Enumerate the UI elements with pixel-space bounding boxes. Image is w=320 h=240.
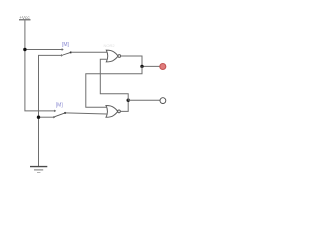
switch S1 (top, key M) lever	[63, 52, 71, 55]
wire NOR2 output to junction	[120, 100, 128, 111]
wire NOR1 output to junction and LED probe	[121, 56, 142, 66]
switch S2 pole dot	[64, 112, 66, 114]
junction node ground/bottom-switch	[37, 116, 40, 119]
svg-text:+Vcc: +Vcc	[19, 15, 30, 20]
logic probe P1 (lit, red)	[160, 64, 166, 70]
NOR gate U2 (bottom) body	[106, 106, 120, 118]
junction node Q-bar output	[127, 99, 130, 102]
wire Vcc to top switch upper throw	[25, 49, 63, 51]
ground symbol	[30, 167, 47, 173]
top switch S1 throw arrowheads	[62, 49, 63, 51]
NOR gate U2 output bubble	[118, 110, 121, 113]
feedback wire Q to NOR2 input1	[86, 66, 142, 107]
feedback wire Q-bar to NOR1 input2	[100, 59, 128, 100]
junction node Vcc/top-switch	[23, 48, 26, 51]
switch S1 pole dot	[70, 51, 72, 53]
svg-text:NOR2: NOR2	[104, 43, 116, 48]
NOR gate U1 output bubble	[118, 55, 121, 58]
wire S1 pole to NOR1 input1	[71, 51, 107, 53]
wire junction to open probe	[128, 99, 160, 101]
svg-text:[M]: [M]	[56, 103, 64, 109]
svg-text:[M]: [M]	[62, 42, 70, 48]
power supply +Vcc symbol	[19, 19, 31, 21]
ground rail vertical wire	[39, 55, 63, 166]
wire S2 pole to NOR2 input2	[65, 113, 107, 114]
logic probe P2 (unlit, open)	[160, 98, 166, 104]
wire ground to bottom switch lower throw	[39, 116, 55, 118]
switch S2 (bottom, key M) lever	[54, 113, 65, 117]
NOR gate U1 (top) body	[106, 50, 120, 62]
wire Vcc vertical rail	[25, 20, 55, 111]
junction node Q output	[140, 65, 143, 68]
